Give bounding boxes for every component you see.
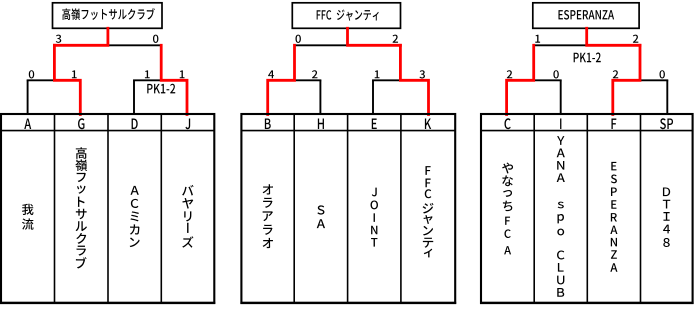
wire team G column 1: [79, 80, 81, 115]
team name バヤリーズ: [182, 185, 193, 248]
score semi 0 bracket 3: [553, 70, 558, 78]
wire pair joiner left 3: [506, 79, 562, 81]
score semi 3 bracket 2: [419, 70, 425, 78]
column header SP: [660, 118, 673, 129]
score final 0 bracket 2: [296, 35, 301, 43]
table 2 column divider 1: [293, 114, 295, 303]
table 2 outline: [241, 114, 455, 303]
score final 2 bracket 3: [633, 35, 638, 43]
table 1 bottom border: [0, 302, 215, 304]
team name ESPERANZA vertical: [610, 162, 617, 272]
table 2 header underline: [241, 130, 455, 132]
wire pair joiner right 1: [133, 79, 188, 81]
wire pair joiner left 1: [27, 79, 82, 81]
wire riser right 3: [639, 45, 641, 80]
team name FFCジャンティ: [423, 166, 434, 257]
team name オラアラオ: [263, 184, 273, 248]
column header J: [185, 118, 190, 129]
column header E: [372, 118, 377, 129]
wire team E column 2: [372, 80, 374, 115]
table 2 bottom border: [240, 302, 456, 304]
score semi 2 bracket 3: [613, 70, 618, 78]
column header F: [611, 118, 616, 129]
wire pair joiner right 2: [372, 79, 429, 81]
table 3 bottom border: [480, 302, 694, 304]
wire team B column 2: [267, 80, 269, 115]
table 3 column divider 2: [586, 114, 588, 303]
column header B: [265, 118, 271, 129]
table 1 column divider 3: [160, 114, 162, 303]
wire pair joiner left 2: [267, 79, 322, 81]
wire box riser 1: [107, 28, 109, 45]
red path match 2 winner 1: [161, 45, 187, 114]
table 3 header underline: [481, 130, 693, 132]
column header G: [78, 118, 84, 129]
table 3 column divider 1: [533, 114, 535, 303]
score semi 1 bracket 1: [180, 70, 185, 78]
title box 1 text: [62, 8, 155, 20]
team name SA: [317, 205, 325, 228]
team name ACミカン: [130, 186, 140, 247]
table 2 column divider 2: [347, 114, 349, 303]
wire riser left 3: [533, 45, 535, 80]
column header H: [318, 118, 324, 129]
wire riser right 2: [399, 45, 401, 80]
column header A: [24, 118, 31, 129]
team name JOINT: [371, 188, 378, 247]
score final 3 bracket 1: [56, 35, 62, 43]
winner box 2: [292, 3, 400, 29]
red path final winner 1: [54, 28, 108, 45]
table 1 column divider 1: [54, 114, 56, 303]
score final 1 bracket 3: [535, 35, 540, 43]
wire team F column 3: [612, 80, 614, 115]
table 1 column divider 2: [107, 114, 109, 303]
score final 2 bracket 2: [393, 35, 398, 43]
wire pair joiner right 3: [612, 79, 668, 81]
red path match 2 winner 3: [613, 45, 640, 114]
red path match 2 winner 2: [400, 45, 428, 114]
score semi 2 bracket 3: [507, 70, 512, 78]
label PK1-2 bracket 1: [147, 84, 175, 94]
wire team D column 1: [133, 80, 135, 115]
table 1 outline: [1, 114, 214, 303]
red path match 1 winner 1: [54, 45, 80, 114]
red path match 1 winner 3: [507, 45, 534, 114]
column header C: [504, 118, 510, 129]
wire team I column 3: [560, 80, 562, 115]
red path match 1 winner 2: [268, 45, 295, 114]
score semi 1 bracket 2: [375, 70, 380, 78]
red path final winner 2: [348, 28, 401, 45]
team name 我流: [22, 204, 34, 230]
title box 3 text: [558, 10, 614, 20]
wire team S column 3: [666, 80, 668, 115]
winner box 3: [533, 3, 639, 29]
wire team C column 3: [506, 80, 508, 115]
wire team J column 1: [186, 80, 188, 115]
wire box riser 2: [347, 28, 349, 45]
wire final joiner 3: [533, 44, 641, 46]
score semi 4 bracket 2: [268, 70, 274, 78]
score semi 0 bracket 3: [660, 70, 665, 78]
wire final joiner 1: [53, 44, 162, 46]
wire team A column 1: [27, 80, 29, 115]
title box 2 text: [317, 9, 379, 20]
column header I: [560, 118, 561, 129]
wire riser left 2: [294, 45, 296, 80]
column header D: [132, 118, 138, 129]
wire team H column 2: [319, 80, 321, 115]
wire riser left 1: [53, 45, 55, 80]
team name 高嶺フットサルクラブ: [75, 147, 87, 268]
wire final joiner 2: [294, 44, 402, 46]
score semi 1 bracket 1: [72, 70, 77, 78]
table 3 column divider 3: [640, 114, 642, 303]
winner box 1: [53, 3, 163, 29]
wire team K column 2: [428, 80, 430, 115]
score semi 1 bracket 1: [145, 70, 150, 78]
team name YANA spo CLUB: [557, 136, 565, 297]
wire riser right 1: [160, 45, 162, 80]
column header K: [425, 118, 431, 129]
wire box riser 3: [586, 28, 588, 45]
table 1 header underline: [1, 130, 214, 132]
label PK1-2 final bracket 3: [574, 53, 601, 63]
score semi 0 bracket 1: [29, 70, 34, 78]
score final 0 bracket 1: [153, 35, 158, 43]
red path final winner 3: [587, 28, 640, 45]
score semi 2 bracket 2: [312, 70, 317, 78]
team name DTI48: [663, 187, 670, 247]
table 3 outline: [481, 114, 693, 303]
team name やなっちFCA: [502, 163, 513, 255]
table 2 column divider 3: [400, 114, 402, 303]
